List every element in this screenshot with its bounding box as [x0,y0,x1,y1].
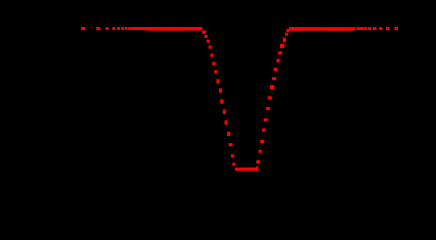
data series: right flat-top dots [357,27,398,30]
data series: descending edge dots of notch [202,31,235,166]
data series: right flat-top solid segment (overlapping dots) [289,27,356,31]
data series: notch bottom solid segment [235,166,259,170]
data series: left flat-top dots of red dotted notch curve [81,27,147,30]
data series: rising edge dots of notch [256,29,290,164]
data series: left flat-top solid segment (overlapping dots) [146,27,203,31]
